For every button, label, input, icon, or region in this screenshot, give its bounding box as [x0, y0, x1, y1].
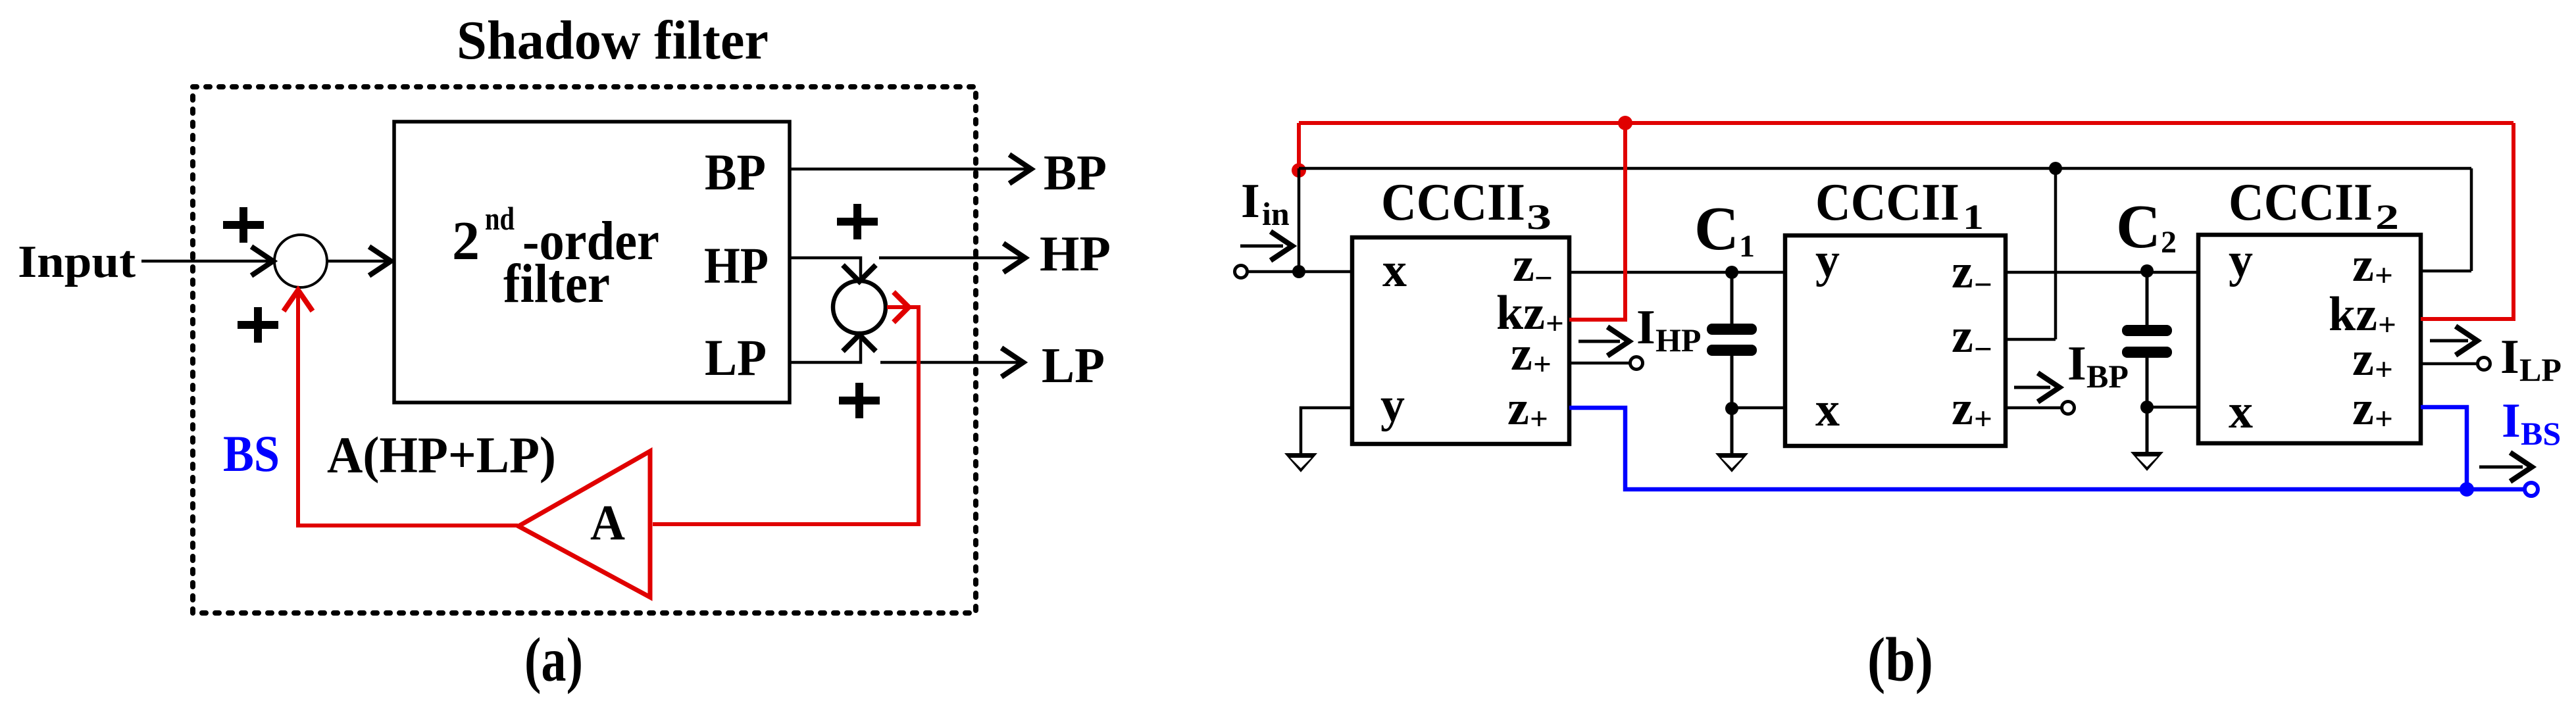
- wire: input to summing node S1: [141, 260, 270, 263]
- IHP terminal (open circle): [1630, 357, 1643, 370]
- svg-text:I: I: [2067, 337, 2086, 391]
- svg-text:I: I: [2502, 394, 2521, 448]
- plus sign at S2 upper input: [837, 204, 878, 239]
- svg-text:+: +: [2375, 351, 2393, 387]
- summing node S1: [274, 235, 327, 287]
- svg-text:filter: filter: [503, 253, 610, 314]
- wire: CCCII2 z+ third pin to ILP terminal: [2421, 362, 2477, 366]
- svg-text:z: z: [1952, 381, 1973, 435]
- capacitor C1: [1730, 272, 1734, 454]
- arrowhead LP output: [1001, 348, 1023, 377]
- amplifier A (triangle): [518, 451, 650, 597]
- arrowhead BP output: [1009, 155, 1031, 183]
- wire: HP output: [879, 257, 1021, 260]
- svg-text:1: 1: [1739, 229, 1755, 264]
- plus sign at S1 upper input: [223, 207, 264, 243]
- junction dot at C1 top: [1725, 266, 1738, 279]
- block CCCII2: [2198, 235, 2421, 443]
- svg-text:z: z: [2352, 381, 2374, 435]
- svg-text:Shadow filter: Shadow filter: [457, 10, 769, 71]
- svg-text:LP: LP: [705, 329, 767, 386]
- wire: amplifier output feedback (red): [298, 293, 518, 526]
- svg-text:I: I: [1636, 301, 1655, 354]
- arrowhead HP output: [1003, 243, 1025, 272]
- svg-text:1: 1: [1963, 197, 1984, 237]
- svg-text:z: z: [1952, 309, 1973, 363]
- wire: red feedback top rail: [1299, 121, 2513, 125]
- svg-text:in: in: [1262, 195, 1290, 232]
- arrowhead ILP current: [2430, 339, 2468, 343]
- arrowhead up into S2: [843, 335, 876, 351]
- block CCCII3: [1352, 237, 1569, 444]
- svg-text:(b): (b): [1867, 625, 1933, 695]
- svg-text:y: y: [2229, 233, 2253, 287]
- svg-text:2: 2: [2375, 197, 2399, 237]
- summing node S2: [833, 281, 886, 333]
- wire: vertical from black rail to CCCII2 z+ first pin: [2470, 168, 2473, 271]
- wire: CCCII3 z+ third pin to IHP terminal: [1569, 362, 1629, 365]
- svg-text:nd: nd: [485, 200, 515, 237]
- wire: red from CCCII2 kz+ up to top rail: [2421, 123, 2513, 319]
- wire: LP output: [880, 361, 1019, 364]
- wire: red from CCCII3 kz+ up to top rail: [1569, 123, 1625, 320]
- svg-text:+: +: [1546, 305, 1564, 341]
- svg-text:−: −: [1974, 331, 1992, 367]
- svg-text:z: z: [2352, 238, 2374, 292]
- plus sign at S2 lower input: [839, 383, 880, 418]
- wire: input terminal to CCCII3 x pin: [1248, 270, 1352, 274]
- svg-text:z: z: [1952, 245, 1973, 299]
- svg-text:2: 2: [452, 210, 480, 272]
- wire: CCCII3 y pin to ground: [1301, 408, 1352, 454]
- wire: CCCII3 z- to C1 to CCCII1 y pin: [1569, 271, 1785, 274]
- junction dot red at input branch: [1292, 163, 1306, 178]
- svg-text:+: +: [2378, 306, 2396, 343]
- svg-text:BS: BS: [2521, 415, 2561, 452]
- svg-text:BP: BP: [705, 143, 766, 201]
- svg-text:BS: BS: [223, 425, 280, 482]
- wire: HP pin elbow into summing node S2: [790, 258, 861, 278]
- red arrowhead into S1 from below: [284, 290, 313, 311]
- arrowhead IBP current: [2014, 386, 2050, 389]
- arrowhead IBS current: [2479, 466, 2523, 469]
- svg-text:C: C: [2116, 193, 2161, 261]
- red arrowhead out of S2: [894, 292, 909, 322]
- svg-text:HP: HP: [1040, 226, 1111, 281]
- svg-text:A(HP+LP): A(HP+LP): [327, 426, 556, 483]
- junction dot blue on bottom rail: [2460, 482, 2474, 497]
- svg-text:z: z: [1507, 381, 1529, 435]
- svg-text:(a): (a): [524, 625, 583, 695]
- svg-text:+: +: [1974, 401, 1992, 437]
- svg-text:HP: HP: [704, 237, 769, 294]
- svg-text:3: 3: [1527, 197, 1552, 237]
- junction dot at C1 bottom: [1725, 402, 1738, 415]
- svg-text:+: +: [1533, 346, 1552, 382]
- IBP terminal (open circle): [2062, 402, 2075, 414]
- dashed boundary box of shadow filter: [193, 87, 976, 613]
- wire: C2 bottom to CCCII2 x pin: [2147, 406, 2198, 409]
- wire: blue CCCII2 z+ fourth pin down to blue rail: [2421, 407, 2467, 489]
- input terminal (open circle): [1235, 266, 1248, 278]
- svg-text:2: 2: [2161, 225, 2177, 260]
- svg-text:I: I: [2500, 330, 2519, 384]
- wire: blue from CCCII3 z+ fourth pin down to bottom blue rail: [1569, 408, 2525, 489]
- svg-text:z: z: [1513, 238, 1534, 292]
- svg-text:I: I: [1241, 174, 1260, 228]
- svg-text:HP: HP: [1655, 322, 1701, 358]
- junction dot at C2 top: [2140, 264, 2154, 278]
- svg-text:x: x: [2229, 385, 2253, 439]
- junction dot at input node: [1292, 265, 1305, 278]
- arrowhead input current: [1240, 245, 1283, 248]
- block: 2nd-order filter: [394, 122, 790, 403]
- arrowhead down into S2: [843, 265, 876, 281]
- svg-text:+: +: [2375, 401, 2393, 437]
- ground symbol under C2: [2131, 452, 2163, 471]
- wire: S2 output to amplifier input (red): [653, 307, 919, 524]
- ground symbol under C1: [1715, 453, 1748, 472]
- svg-text:y: y: [1380, 378, 1405, 432]
- svg-text:C: C: [1694, 195, 1739, 263]
- ILP terminal (open circle): [2478, 358, 2490, 370]
- svg-text:+: +: [2375, 257, 2393, 293]
- svg-text:CCCII: CCCII: [1815, 174, 1959, 232]
- svg-text:A: A: [590, 495, 625, 550]
- wire: CCCII1 z- second pin to vertical riser: [2006, 338, 2056, 341]
- plus sign at S1 lower input: [238, 307, 278, 343]
- wire: CCCII1 z- first pin to C2 to CCCII2 y pin: [2006, 271, 2198, 274]
- wire: LP pin elbow into summing node S2: [790, 339, 861, 362]
- svg-text:+: +: [1530, 401, 1548, 437]
- wire: red drop to input node: [1297, 123, 1301, 170]
- ground symbol at CCCII3 y: [1284, 453, 1317, 472]
- wire: BP output: [790, 168, 1026, 171]
- arrowhead IHP current: [1578, 340, 1620, 343]
- wire: vertical from black rail to CCCII1 z- second pin: [2054, 168, 2058, 339]
- arrowhead into S1: [251, 247, 273, 276]
- svg-text:x: x: [1815, 383, 1840, 437]
- svg-text:x: x: [1382, 243, 1407, 297]
- svg-text:z: z: [2352, 332, 2374, 386]
- junction dot on black rail: [2049, 162, 2062, 175]
- svg-text:z: z: [1511, 327, 1532, 381]
- junction dot at C2 bottom: [2140, 401, 2154, 414]
- capacitor C2: [2146, 271, 2149, 452]
- svg-text:y: y: [1815, 233, 1840, 287]
- block CCCII1: [1785, 235, 2006, 446]
- svg-text:CCCII: CCCII: [2229, 174, 2373, 232]
- svg-text:BP: BP: [1044, 145, 1107, 201]
- svg-text:Input: Input: [18, 237, 136, 287]
- svg-text:−: −: [1974, 266, 1992, 303]
- IBS terminal (open circle blue): [2525, 483, 2538, 496]
- svg-text:LP: LP: [2519, 351, 2562, 388]
- svg-text:CCCII: CCCII: [1381, 174, 1525, 232]
- arrowhead into filter box: [369, 247, 391, 276]
- wire: S1 to 2nd-order filter box: [327, 260, 391, 263]
- junction dot red on top rail: [1618, 116, 1632, 130]
- wire: CCCII2 z+ first pin up to black rail: [2421, 270, 2471, 273]
- svg-text:LP: LP: [1042, 338, 1105, 393]
- wire: C1 bottom to CCCII1 x pin: [1732, 406, 1785, 410]
- wire: CCCII1 z+ pin to IBP terminal: [2006, 406, 2061, 410]
- wire: vertical from black rail to input node: [1298, 168, 1301, 272]
- wire: black feedback rail: [1299, 167, 2471, 170]
- svg-text:BP: BP: [2086, 358, 2129, 395]
